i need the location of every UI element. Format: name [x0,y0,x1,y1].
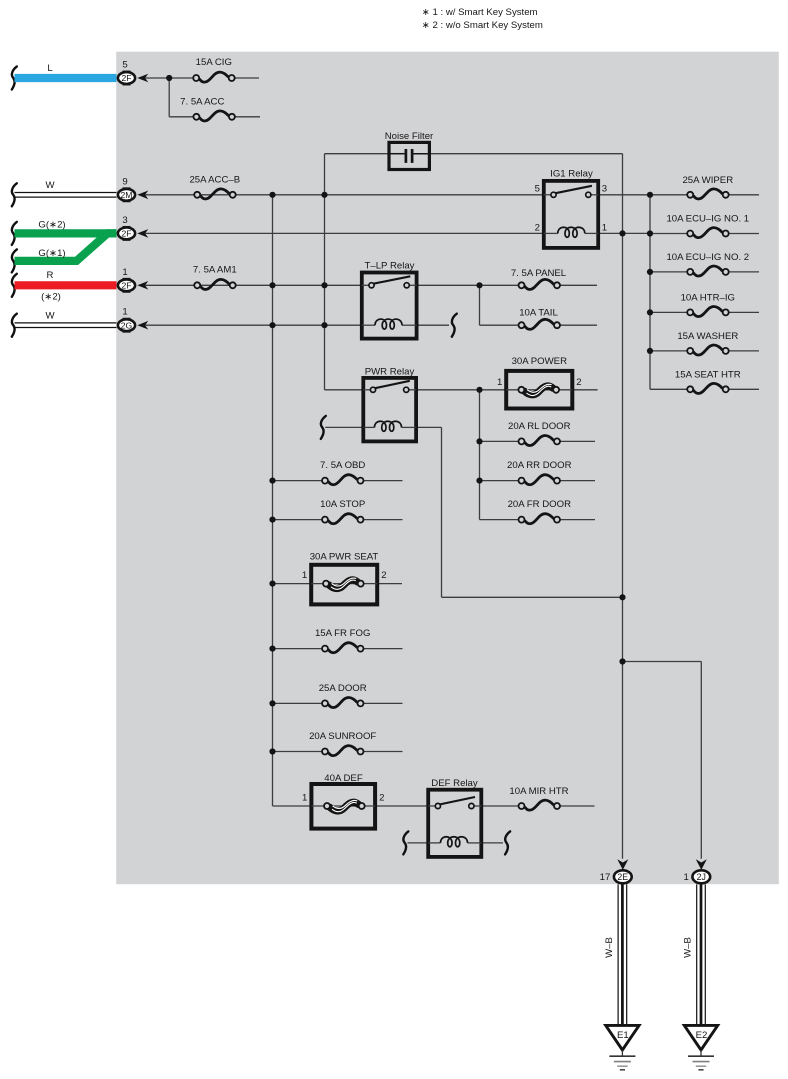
svg-text:10A TAIL: 10A TAIL [519,308,558,319]
svg-text:7. 5A ACC: 7. 5A ACC [180,97,224,108]
svg-text:17: 17 [600,872,611,883]
svg-text:30A POWER: 30A POWER [512,356,568,367]
svg-text:7. 5A OBD: 7. 5A OBD [320,460,365,471]
svg-text:2: 2 [535,222,540,233]
svg-text:2: 2 [381,570,386,581]
svg-text:20A SUNROOF: 20A SUNROOF [309,731,376,742]
svg-text:1: 1 [497,377,502,388]
svg-text:30A PWR SEAT: 30A PWR SEAT [310,552,379,563]
svg-text:20A RR DOOR: 20A RR DOOR [507,460,572,471]
svg-text:R: R [47,270,54,281]
svg-text:10A MIR HTR: 10A MIR HTR [509,786,568,797]
svg-text:2J: 2J [697,872,706,882]
svg-text:G(∗2): G(∗2) [38,220,65,231]
svg-text:20A FR DOOR: 20A FR DOOR [508,499,572,510]
svg-text:1: 1 [302,792,307,803]
svg-text:2F: 2F [121,229,131,239]
svg-text:5: 5 [535,184,540,195]
svg-text:20A RL DOOR: 20A RL DOOR [508,421,571,432]
svg-text:W–B: W–B [604,937,615,958]
svg-text:10A ECU–IG NO. 2: 10A ECU–IG NO. 2 [666,252,749,263]
svg-text:5: 5 [122,60,127,71]
svg-text:7. 5A PANEL: 7. 5A PANEL [511,268,567,279]
svg-text:2: 2 [379,792,384,803]
svg-text:DEF Relay: DEF Relay [431,778,478,789]
svg-text:∗ 2 : w/o Smart Key System: ∗ 2 : w/o Smart Key System [422,20,543,31]
svg-text:E2: E2 [696,1030,708,1041]
svg-text:15A CIG: 15A CIG [196,57,232,68]
svg-text:W–B: W–B [683,937,694,958]
svg-text:2M: 2M [121,190,133,200]
svg-text:1: 1 [122,307,127,318]
svg-text:G(∗1): G(∗1) [38,248,65,259]
svg-text:2F: 2F [121,280,131,290]
svg-text:L: L [47,63,53,74]
svg-text:IG1 Relay: IG1 Relay [550,169,593,180]
svg-text:25A ACC–B: 25A ACC–B [189,174,240,185]
svg-text:2G: 2G [121,320,133,330]
svg-text:Noise Filter: Noise Filter [385,131,434,142]
svg-text:W: W [45,180,55,191]
svg-text:(∗2): (∗2) [41,292,61,303]
svg-text:W: W [45,311,55,322]
svg-text:∗ 1 : w/ Smart Key System: ∗ 1 : w/ Smart Key System [422,7,538,18]
svg-text:15A SEAT HTR: 15A SEAT HTR [675,370,741,381]
svg-text:1: 1 [122,267,127,278]
svg-text:2E: 2E [617,872,628,882]
svg-text:15A WASHER: 15A WASHER [677,331,738,342]
svg-text:T–LP Relay: T–LP Relay [365,260,415,271]
svg-text:PWR Relay: PWR Relay [365,367,415,378]
svg-text:2F: 2F [121,73,131,83]
svg-text:E1: E1 [617,1030,629,1041]
svg-text:2: 2 [576,377,581,388]
svg-text:1: 1 [302,570,307,581]
svg-text:3: 3 [122,215,127,226]
svg-text:1: 1 [683,872,688,883]
svg-text:1: 1 [602,222,607,233]
svg-text:10A ECU–IG NO. 1: 10A ECU–IG NO. 1 [666,214,749,225]
svg-text:25A WIPER: 25A WIPER [682,175,733,186]
svg-text:3: 3 [602,184,607,195]
svg-text:10A HTR–IG: 10A HTR–IG [681,293,735,304]
svg-text:9: 9 [122,176,127,187]
svg-text:7. 5A AM1: 7. 5A AM1 [193,264,237,275]
svg-text:25A DOOR: 25A DOOR [319,683,367,694]
svg-text:15A FR FOG: 15A FR FOG [315,628,370,639]
svg-text:10A STOP: 10A STOP [320,499,365,510]
